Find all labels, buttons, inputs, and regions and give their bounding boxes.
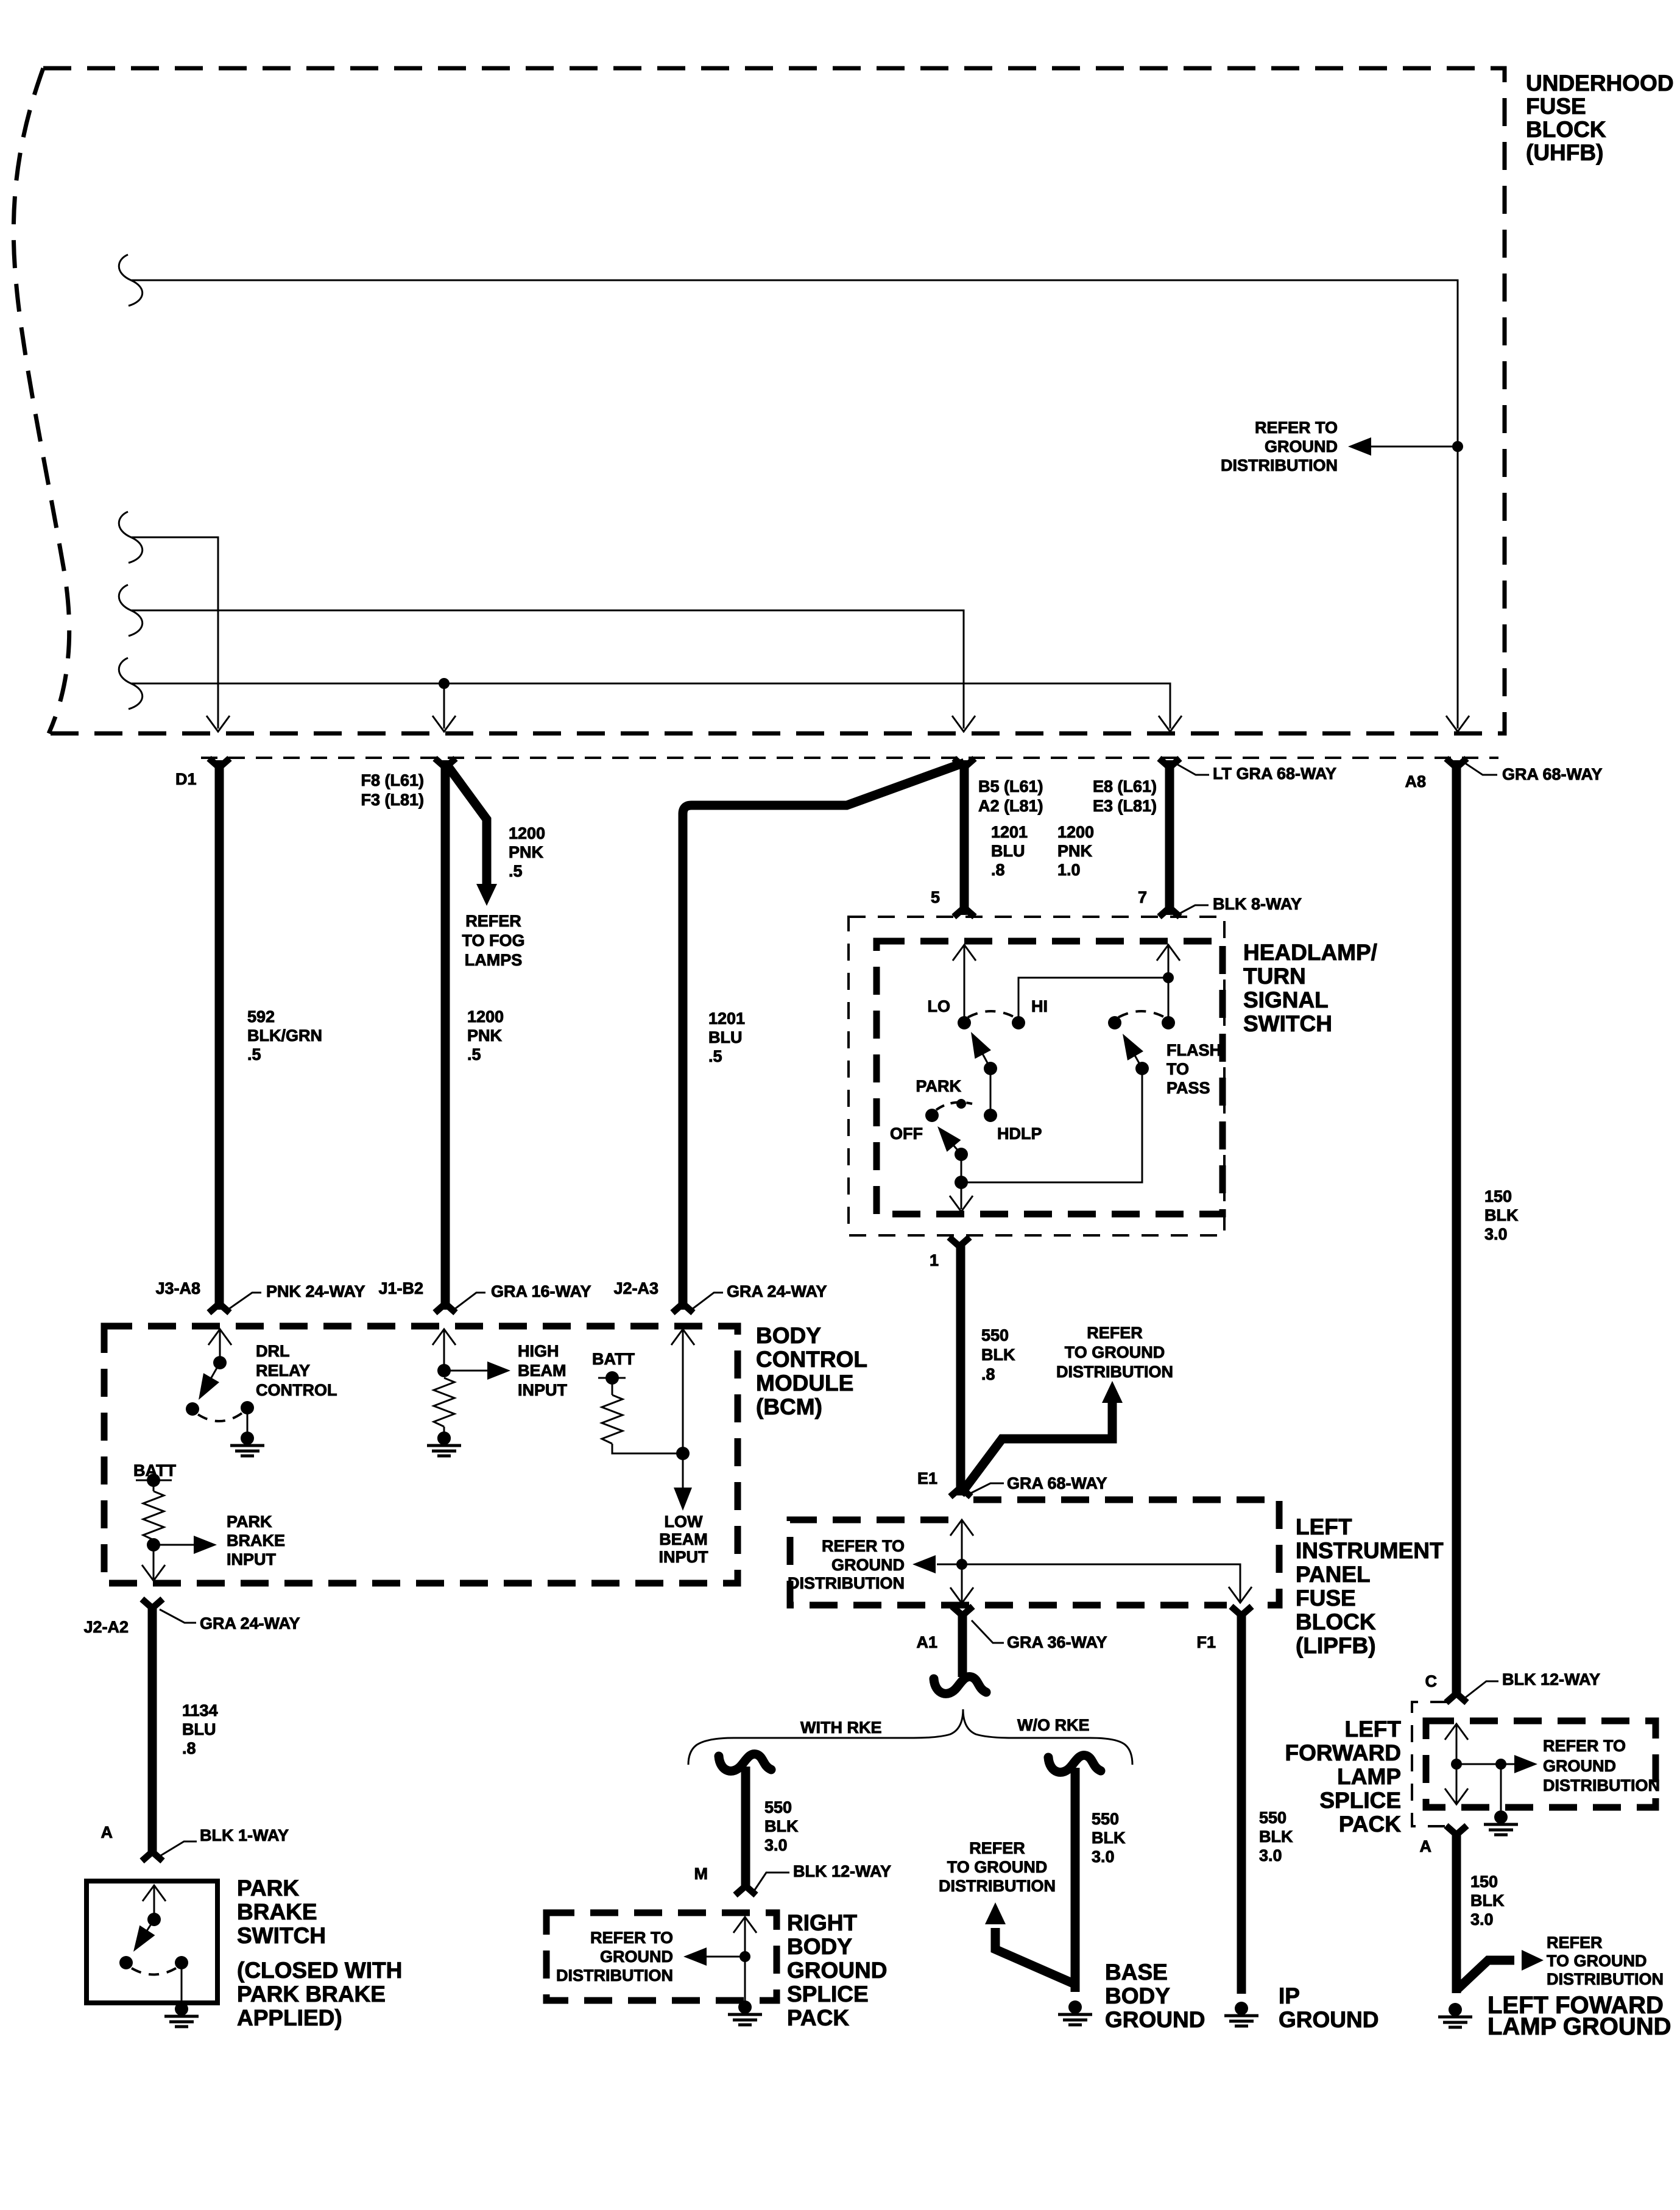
svg-text:GROUND: GROUND [1105, 2007, 1205, 2032]
svg-text:1200: 1200 [1057, 823, 1094, 841]
svg-text:A2 (L81): A2 (L81) [978, 797, 1043, 815]
svg-text:550: 550 [764, 1798, 792, 1816]
svg-text:TO GROUND: TO GROUND [1547, 1952, 1647, 1970]
wire: junction to switch pin 1 [961, 1182, 962, 1209]
svg-text:BODY: BODY [1105, 1983, 1170, 2008]
svg-text:LEFT: LEFT [1296, 1514, 1352, 1539]
svg-text:REFER TO: REFER TO [1543, 1737, 1626, 1755]
svg-text:E1: E1 [917, 1469, 937, 1488]
svg-text:SPLICE: SPLICE [787, 1982, 869, 2007]
svg-text:F8 (L61): F8 (L61) [361, 771, 424, 789]
wire: arrow to HIGH BEAM INPUT [444, 1370, 487, 1372]
underhood fuse block (UHFB) dashed enclosure [13, 68, 1505, 733]
svg-text:BEAM: BEAM [659, 1530, 708, 1548]
wire: UHFB internal feed to terminal B5 [119, 585, 142, 636]
svg-text:3.0: 3.0 [1259, 1846, 1282, 1865]
wire: circuit 1200 PNK 1.0 from E8 to headlamp switch pin 7 [1165, 760, 1174, 915]
svg-text:(UHFB): (UHFB) [1526, 140, 1603, 165]
svg-text:1200: 1200 [509, 824, 545, 842]
svg-text:550: 550 [981, 1326, 1009, 1344]
node: park brake input junction [147, 1538, 160, 1552]
svg-text:OFF: OFF [890, 1124, 923, 1143]
wire: junction to flash-to-pass arm pivot [961, 1068, 1142, 1182]
svg-text:1201: 1201 [708, 1009, 745, 1028]
svg-text:RIGHT: RIGHT [787, 1910, 858, 1935]
wire: circuit 550 BLK 3.0 from F1 to IP ground [1237, 1613, 1246, 1994]
left forward lamp splice pack inner dashed box [1426, 1721, 1656, 1807]
switch: LO contact entry line [964, 945, 965, 1023]
wire: circuit 550 BLK 3.0 to connector M [741, 1767, 750, 1887]
svg-text:REFER: REFER [1547, 1933, 1603, 1952]
node: junction on A8 feed for ground distribution [1452, 441, 1463, 452]
svg-text:3.0: 3.0 [1470, 1910, 1494, 1929]
svg-text:LAMPS: LAMPS [465, 951, 523, 969]
svg-text:BLK 1-WAY: BLK 1-WAY [200, 1826, 289, 1845]
svg-text:GRA 16-WAY: GRA 16-WAY [491, 1282, 591, 1301]
svg-text:PARK: PARK [237, 1876, 299, 1901]
BCM entry arrow J2-A3 / low beam input [682, 1329, 684, 1453]
switch arm: DRL relay (points down-left) [208, 1363, 220, 1384]
node: PARK contact [956, 1099, 966, 1109]
svg-text:MODULE: MODULE [756, 1371, 853, 1396]
svg-text:BLK: BLK [1092, 1829, 1126, 1847]
svg-text:LAMP GROUND: LAMP GROUND [1488, 2013, 1671, 2040]
svg-text:BEAM: BEAM [518, 1361, 566, 1380]
svg-text:GRA 24-WAY: GRA 24-WAY [727, 1282, 827, 1301]
connector A1 [952, 1606, 973, 1615]
svg-text:.5: .5 [708, 1047, 722, 1065]
connector terminal B5/A2 [954, 758, 975, 768]
wire: low beam junction down arrow [682, 1453, 684, 1489]
svg-text:DISTRIBUTION: DISTRIBUTION [556, 1966, 673, 1985]
wire: circuit 1201 BLU .5 branch from B5 to BCM J2-A3 [683, 763, 964, 1310]
svg-text:INPUT: INPUT [518, 1381, 568, 1399]
svg-text:.8: .8 [991, 861, 1005, 879]
svg-text:BLK: BLK [764, 1817, 799, 1835]
svg-text:C: C [1425, 1672, 1438, 1690]
svg-text:B5 (L61): B5 (L61) [978, 777, 1043, 796]
label: BLK 1-WAY [161, 1841, 197, 1855]
svg-text:3.0: 3.0 [764, 1836, 788, 1854]
wire: splice pack internal vertical [744, 1918, 746, 2001]
label: GRA 68-WAY at E1 [970, 1483, 1004, 1494]
svg-text:1134: 1134 [182, 1701, 218, 1720]
headlamp/turn signal switch inner dashed box [877, 941, 1223, 1214]
wire: circuit 1201 BLU .8 from B5 to headlamp switch pin 5 [960, 760, 969, 915]
wire: arrow to ground distribution (LIPFB) [937, 1564, 962, 1566]
svg-text:HDLP: HDLP [997, 1124, 1042, 1143]
svg-text:REFER: REFER [1087, 1324, 1143, 1342]
svg-text:GROUND: GROUND [600, 1947, 673, 1966]
svg-text:REFER TO: REFER TO [590, 1929, 673, 1947]
label: GRA 24-WAY (J2-A3) [691, 1293, 723, 1310]
svg-text:GROUND: GROUND [1279, 2007, 1378, 2032]
svg-text:SIGNAL: SIGNAL [1243, 987, 1329, 1012]
body control module dashed box [104, 1326, 738, 1583]
park brake switch solid box [86, 1881, 217, 2003]
resistor: low beam pull-up [612, 1378, 613, 1395]
svg-text:J2-A2: J2-A2 [83, 1618, 129, 1636]
svg-text:D1: D1 [175, 770, 197, 788]
label: LT GRA 68-WAY connector [1177, 764, 1209, 775]
svg-text:DRL: DRL [256, 1342, 290, 1360]
svg-text:TO: TO [1166, 1060, 1189, 1078]
node: flash-to-pass fixed contact [1162, 1016, 1175, 1029]
wire: circuit 150 BLK 3.0 from A8 down to connector C [1452, 760, 1461, 1695]
wire: pivot to HDLP contact [990, 1068, 992, 1115]
svg-text:A1: A1 [916, 1633, 937, 1651]
node: lamp splice junction 2 [1495, 1759, 1506, 1770]
wire: UHFB internal feed to terminal A8 [119, 255, 142, 306]
svg-text:BLK: BLK [1484, 1206, 1519, 1224]
svg-text:LEFT: LEFT [1345, 1717, 1402, 1742]
svg-text:PANEL: PANEL [1296, 1562, 1371, 1587]
svg-text:A: A [101, 1823, 113, 1841]
svg-text:BLK 12-WAY: BLK 12-WAY [793, 1862, 891, 1880]
svg-text:150: 150 [1484, 1187, 1512, 1206]
svg-text:550: 550 [1259, 1809, 1286, 1827]
node: selector arm pivot [955, 1148, 968, 1161]
connector terminal E8/E3 [1159, 758, 1180, 768]
node: DRL fixed contact [186, 1402, 199, 1416]
wire: park brake input down to J2-A2 [153, 1545, 155, 1579]
node: junction on feed at F8 drop [439, 678, 450, 689]
wire: LIPFB junction to F1 exit [962, 1564, 1240, 1601]
svg-text:FUSE: FUSE [1296, 1586, 1356, 1611]
svg-text:CONTROL: CONTROL [256, 1381, 337, 1399]
svg-text:BLU: BLU [708, 1028, 743, 1047]
svg-text:592: 592 [247, 1008, 275, 1026]
svg-text:GROUND: GROUND [787, 1958, 887, 1983]
svg-text:.8: .8 [981, 1365, 995, 1383]
svg-text:BLOCK: BLOCK [1296, 1609, 1376, 1634]
wire: circuit 550 BLK .8 from switch pin 1 to LIPFB E1 [956, 1244, 965, 1495]
svg-text:(BCM): (BCM) [756, 1394, 822, 1419]
svg-text:BLK 8-WAY: BLK 8-WAY [1213, 895, 1302, 913]
svg-text:3.0: 3.0 [1484, 1225, 1508, 1243]
svg-text:PARK BRAKE: PARK BRAKE [237, 1982, 386, 2007]
wire: drop to F8 terminal [443, 683, 445, 729]
svg-text:PACK: PACK [787, 2005, 849, 2030]
svg-text:WITH RKE: WITH RKE [800, 1718, 881, 1737]
svg-text:BRAKE: BRAKE [227, 1531, 285, 1550]
svg-text:W/O RKE: W/O RKE [1017, 1716, 1090, 1734]
svg-text:M: M [694, 1865, 708, 1883]
dashed gang arc LO-HI [968, 1011, 1015, 1017]
connector A at lamp splice pack [1446, 1826, 1467, 1835]
dashed arc DRL contacts [198, 1413, 242, 1421]
wire: A1 stub to option split [958, 1613, 967, 1677]
wire: arrow to ground distribution (right body) [707, 1956, 745, 1958]
svg-text:INPUT: INPUT [227, 1550, 277, 1569]
svg-text:.5: .5 [509, 862, 523, 880]
svg-text:.5: .5 [467, 1045, 481, 1064]
svg-text:GROUND: GROUND [1543, 1757, 1616, 1775]
svg-text:BLK: BLK [1470, 1891, 1505, 1910]
dashed arc park brake contacts [132, 1968, 176, 1975]
wire: UHFB internal feed to terminals F8 and E8 [119, 658, 142, 709]
wire: contact to switch ground [181, 1963, 183, 2004]
node: low beam junction [676, 1447, 690, 1460]
svg-text:BLK: BLK [1259, 1827, 1293, 1846]
connector terminal F8/F3 [435, 758, 456, 768]
svg-text:1.0: 1.0 [1057, 861, 1081, 879]
wire: 1200 PNK branch to fog lamps [445, 763, 487, 884]
svg-text:.8: .8 [182, 1739, 196, 1757]
svg-text:550: 550 [1092, 1810, 1119, 1828]
svg-text:LO: LO [928, 997, 951, 1015]
connector A at park brake switch [142, 1852, 163, 1861]
wire: LIPFB internal vertical with arrows [961, 1520, 963, 1602]
connector pin 5 into switch [954, 908, 975, 917]
node: high beam resistor bottom [437, 1432, 451, 1445]
node: switch output junction [955, 1176, 968, 1189]
svg-text:FUSE: FUSE [1526, 94, 1586, 119]
BCM connector J3-A8 [209, 1304, 230, 1313]
svg-text:LOW: LOW [665, 1513, 703, 1531]
BCM entry arrow J3-A8 / DRL relay control [219, 1329, 221, 1363]
label: GRA 68-WAY connector at A8 [1464, 763, 1497, 775]
svg-text:PARK: PARK [916, 1077, 961, 1095]
svg-text:DISTRIBUTION: DISTRIBUTION [1056, 1363, 1173, 1381]
wire: junction to ground branch [1456, 1763, 1501, 1765]
svg-text:SWITCH: SWITCH [237, 1923, 326, 1948]
svg-text:150: 150 [1470, 1873, 1498, 1891]
svg-text:DISTRIBUTION: DISTRIBUTION [788, 1574, 905, 1592]
node: junction on pin 7 line [1163, 972, 1174, 983]
svg-text:PNK: PNK [467, 1026, 503, 1045]
svg-text:BATT: BATT [592, 1350, 635, 1368]
wire: DRL contact to ground [247, 1408, 249, 1435]
connector F1 [1231, 1606, 1252, 1615]
svg-text:(CLOSED WITH: (CLOSED WITH [237, 1958, 402, 1983]
svg-text:PARK: PARK [227, 1513, 272, 1531]
svg-text:REFER TO: REFER TO [822, 1537, 905, 1555]
svg-text:GRA 68-WAY: GRA 68-WAY [1502, 765, 1603, 783]
option split brace [688, 1709, 963, 1765]
UHFB connector face dashed line [201, 757, 1498, 759]
svg-text:DISTRIBUTION: DISTRIBUTION [1543, 1776, 1660, 1795]
left forward lamp splice pack outer dashed boundary [1412, 1702, 1447, 1826]
connector E1 [950, 1488, 971, 1497]
svg-text:BASE: BASE [1105, 1960, 1168, 1985]
ground: DRL relay control ground [230, 1432, 264, 1456]
wire: circuit 550 BLK 3.0 to base body ground [1071, 1768, 1080, 1992]
svg-text:HIGH: HIGH [518, 1342, 559, 1360]
svg-text:DISTRIBUTION: DISTRIBUTION [1221, 456, 1338, 475]
svg-text:APPLIED): APPLIED) [237, 2005, 342, 2030]
ground: IP ground [1224, 2002, 1258, 2026]
connector C [1446, 1693, 1467, 1703]
dashed gang arc flash-to-pass [1118, 1011, 1165, 1017]
ground: lamp splice pack internal ground [1484, 1810, 1518, 1835]
node: LIPFB internal junction [956, 1559, 967, 1570]
svg-text:DISTRIBUTION: DISTRIBUTION [939, 1877, 1056, 1895]
svg-text:PASS: PASS [1166, 1079, 1210, 1097]
node: DRL second contact [241, 1401, 254, 1414]
svg-text:GROUND: GROUND [831, 1556, 905, 1574]
svg-text:E3 (L81): E3 (L81) [1093, 797, 1157, 815]
svg-text:PNK: PNK [1057, 842, 1093, 860]
node: flash-to-pass moving contact [1108, 1016, 1121, 1029]
wire: selector pivot to output junction [961, 1154, 962, 1182]
svg-text:1200: 1200 [467, 1008, 504, 1026]
node: BATT terminal low beam [598, 1377, 626, 1379]
node: DRL arm pivot [213, 1356, 227, 1369]
svg-text:E8 (L61): E8 (L61) [1093, 777, 1157, 796]
wire: park brake switch entry [154, 1885, 155, 1919]
svg-text:UNDERHOOD: UNDERHOOD [1526, 71, 1674, 96]
node: high beam junction [437, 1364, 451, 1377]
right body ground splice pack dashed box [546, 1913, 777, 2000]
resistor: park brake input pull-up [153, 1480, 155, 1491]
wire: HI contact to flash-to-pass feed [1018, 978, 1168, 1023]
svg-text:PACK: PACK [1339, 1812, 1401, 1837]
wire: junction 2 down to splice ground [1500, 1764, 1502, 1810]
wire: UHFB internal feed to terminal D1 [119, 512, 142, 563]
node: BATT terminal park brake [136, 1480, 172, 1481]
label: GRA 36-WAY at A1 [972, 1620, 1004, 1643]
node: LO contact [958, 1016, 971, 1029]
wire: circuit 1134 BLU .8 to park brake switch [148, 1607, 157, 1853]
svg-text:J3-A8: J3-A8 [155, 1279, 200, 1297]
svg-text:1201: 1201 [991, 823, 1028, 841]
headlamp/turn signal switch outer dashed boundary [849, 917, 1224, 1235]
svg-text:LT GRA 68-WAY: LT GRA 68-WAY [1213, 764, 1336, 783]
svg-text:HEADLAMP/: HEADLAMP/ [1243, 940, 1377, 965]
switch: flash-to-pass entry line [1168, 945, 1170, 1023]
connector pin 7 into switch [1159, 908, 1180, 917]
svg-text:A8: A8 [1405, 772, 1426, 791]
switch arm: flash-to-pass (points at moving contact) [1131, 1049, 1142, 1068]
wire: arrow to ground distribution (UHFB) [1371, 446, 1458, 448]
svg-text:GRA 24-WAY: GRA 24-WAY [200, 1614, 300, 1633]
svg-text:DISTRIBUTION: DISTRIBUTION [1547, 1970, 1664, 1988]
svg-text:INSTRUMENT: INSTRUMENT [1296, 1538, 1444, 1563]
switch arm: park brake (points down-left) [144, 1919, 154, 1935]
node: park brake fixed contact [119, 1956, 133, 1969]
svg-text:(LIPFB): (LIPFB) [1296, 1633, 1376, 1658]
wire: resistor to low beam junction [612, 1444, 683, 1453]
svg-text:TURN: TURN [1243, 964, 1306, 989]
svg-text:TO FOG: TO FOG [462, 931, 524, 950]
svg-text:.5: .5 [247, 1045, 261, 1064]
wire: circuit 592 BLK/GRN from D1 to BCM J3-A8 [215, 760, 224, 1310]
svg-text:BODY: BODY [756, 1323, 821, 1348]
splice option curl at A1 [934, 1676, 986, 1693]
BCM connector J2-A2 [142, 1599, 163, 1608]
dashed selector arc OFF-PARK [936, 1103, 972, 1110]
svg-text:FLASH: FLASH [1166, 1041, 1221, 1059]
wire: thick branch to ground distribution (base body) [995, 1928, 1075, 1984]
ground: base body ground [1058, 2000, 1092, 2025]
svg-text:GROUND: GROUND [1265, 437, 1338, 456]
resistor: high beam pull-down [434, 1378, 454, 1427]
wire: circuit 1200 PNK from F8 to BCM J1-B2 [441, 760, 450, 1310]
connector terminal A8 [1446, 758, 1467, 768]
label: BLK 8-WAY switch connector [1177, 905, 1209, 915]
svg-text:LAMP: LAMP [1337, 1764, 1401, 1789]
svg-text:HI: HI [1031, 997, 1048, 1015]
svg-text:RELAY: RELAY [256, 1361, 310, 1380]
connector M [735, 1886, 756, 1895]
BCM entry arrow J1-B2 / high beam input [443, 1329, 445, 1371]
switch arm: selector (points at OFF) [950, 1142, 961, 1154]
wire: circuit 150 BLK 3.0 to left forward lamp ground [1452, 1832, 1461, 1993]
label: GRA 24-WAY (J2-A2) [160, 1609, 196, 1623]
svg-text:PNK: PNK [509, 843, 544, 861]
wire: thick branch to ground distribution (mid) [961, 1401, 1112, 1494]
svg-text:PNK 24-WAY: PNK 24-WAY [266, 1282, 365, 1301]
connector pin 1 of switch [949, 1237, 970, 1246]
svg-text:7: 7 [1138, 888, 1147, 906]
switch arm: dimmer (points at LO) [978, 1046, 990, 1068]
svg-text:F3 (L81): F3 (L81) [361, 791, 424, 809]
ground: park brake switch ground [164, 2002, 199, 2027]
svg-text:REFER: REFER [465, 912, 521, 930]
svg-text:BLU: BLU [182, 1720, 216, 1739]
splice curl W/O RKE branch [1048, 1755, 1101, 1772]
svg-text:J2-A3: J2-A3 [613, 1279, 658, 1297]
BCM connector J2-A3 [672, 1304, 693, 1313]
left instrument panel fuse block dashed box [790, 1500, 1279, 1605]
wire: arrow to PARK BRAKE INPUT [154, 1544, 194, 1546]
node: park brake ground contact [175, 1956, 188, 1969]
label: GRA 16-WAY [454, 1293, 485, 1310]
node: dimmer arm pivot [984, 1062, 997, 1075]
node: park brake arm pivot [147, 1913, 161, 1926]
node: OFF contact [925, 1109, 939, 1122]
svg-text:FORWARD: FORWARD [1285, 1740, 1401, 1765]
BCM connector J1-B2 [435, 1304, 456, 1313]
wire: lamp splice pack internal vertical [1456, 1724, 1458, 1803]
wire: thick branch to ground distribution (left forward lamp) [1457, 1960, 1514, 1989]
label: PNK 24-WAY [228, 1293, 261, 1310]
svg-text:5: 5 [931, 888, 940, 906]
svg-text:REFER: REFER [969, 1839, 1025, 1857]
svg-text:TO GROUND: TO GROUND [947, 1858, 1048, 1876]
node: splice pack junction [739, 1951, 750, 1962]
svg-text:IP: IP [1279, 1983, 1300, 2008]
svg-text:TO GROUND: TO GROUND [1065, 1343, 1165, 1361]
ground: left forward lamp ground [1438, 2003, 1472, 2027]
svg-text:BRAKE: BRAKE [237, 1899, 317, 1924]
svg-text:F1: F1 [1196, 1633, 1216, 1651]
svg-text:REFER TO: REFER TO [1255, 418, 1338, 437]
svg-text:GRA 68-WAY: GRA 68-WAY [1007, 1474, 1107, 1492]
svg-text:BLOCK: BLOCK [1526, 117, 1606, 142]
node: HDLP contact [984, 1109, 997, 1122]
label: BLK 12-WAY at M [754, 1873, 789, 1891]
svg-text:CONTROL: CONTROL [756, 1347, 867, 1372]
svg-text:INPUT: INPUT [659, 1548, 709, 1566]
splice curl WITH RKE branch [719, 1754, 771, 1771]
svg-text:BLK/GRN: BLK/GRN [247, 1026, 322, 1045]
svg-text:BLK: BLK [981, 1346, 1015, 1364]
svg-text:BODY: BODY [787, 1934, 852, 1959]
label: BLK 12-WAY at C [1464, 1681, 1498, 1698]
wire: arrow to ground distribution (lamp splice) [1501, 1763, 1514, 1765]
svg-text:BLK 12-WAY: BLK 12-WAY [1502, 1670, 1600, 1689]
connector terminal D1 [209, 758, 230, 768]
node: lamp splice junction 1 [1451, 1759, 1462, 1770]
node: flash arm pivot [1135, 1062, 1149, 1075]
svg-text:SPLICE: SPLICE [1319, 1788, 1401, 1813]
ground: high beam input ground [427, 1432, 461, 1456]
svg-text:BLU: BLU [991, 842, 1025, 860]
svg-text:J1-B2: J1-B2 [378, 1279, 423, 1297]
svg-text:SWITCH: SWITCH [1243, 1011, 1332, 1036]
